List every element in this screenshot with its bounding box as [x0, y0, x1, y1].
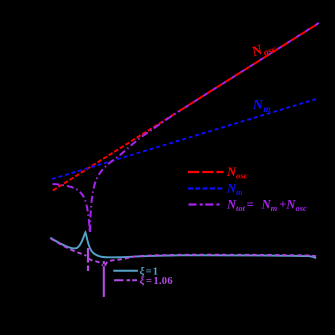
curve N_tot right branch rising from resonance and converging to N_osc	[90, 111, 180, 232]
small legend entry: xi=1 teal sample line	[113, 270, 138, 272]
curve xi=1.06 left segment (purple dashed)	[51, 238, 86, 255]
curve N_tot overlapping N_osc (purple dashes interleaved over red)	[180, 23, 319, 111]
curve N_tot left branch (purple dash-dot, dips to resonance)	[53, 184, 90, 232]
svg-text:ξ=1.06: ξ=1.06	[140, 276, 173, 287]
small legend entry: xi=1.06 purple dashed sample line	[114, 279, 137, 281]
curve xi=1.06 spike 2 (second zero crossing)	[103, 261, 105, 297]
curve N_osc (red dashed straight line, left part)	[53, 117, 170, 191]
legend entry 1: red dashed sample line	[188, 171, 224, 173]
curve N_tot resonance tip (solid vertical)	[89, 226, 91, 233]
curve N_osc (right part, overlapped by N_tot)	[170, 23, 319, 117]
curve N_m (blue dashed straight line)	[52, 99, 318, 180]
label N_osc (red bold italic, tilted along line)	[249, 38, 278, 63]
curve xi=1.06 right tail (purple dashed over teal)	[105, 255, 316, 266]
curve xi=1.06 spike 1 (zero crossing)	[87, 248, 89, 271]
curve xi=1.06 middle segment	[88, 259, 102, 266]
curve xi=1 (teal solid with peak at resonance)	[50, 232, 316, 258]
legend entry 3: purple dash-dot sample line	[189, 203, 222, 205]
legend entry 2: blue dashed sample line	[188, 187, 223, 189]
